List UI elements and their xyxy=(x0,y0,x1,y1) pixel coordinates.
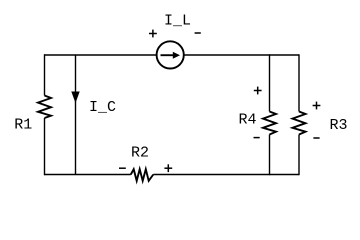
wire left branch top lead to R1 xyxy=(44,54,46,95)
minus sign of R2 xyxy=(119,167,126,169)
wire bottom right segment xyxy=(153,174,299,176)
resistor R4 xyxy=(263,112,276,135)
wire left branch bottom lead from R1 xyxy=(44,118,46,175)
plus sign of R3 xyxy=(313,102,321,110)
resistor R3 xyxy=(293,112,306,135)
plus sign of I_L source xyxy=(149,30,157,38)
svg-text:R1: R1 xyxy=(14,117,32,134)
minus sign of R4 xyxy=(254,137,260,139)
minus sign of R3 xyxy=(313,137,319,139)
current direction arrow I_C xyxy=(71,92,79,104)
resistor R1 xyxy=(38,96,51,119)
svg-text:R4: R4 xyxy=(238,112,256,129)
minus sign of I_L source xyxy=(195,32,201,34)
svg-text:I_C: I_C xyxy=(89,99,116,116)
svg-text:R2: R2 xyxy=(131,145,149,162)
svg-text:R3: R3 xyxy=(329,117,347,134)
wire I_C branch xyxy=(75,55,77,175)
wire R3 branch bottom lead xyxy=(298,135,300,176)
resistor R2 xyxy=(131,169,154,181)
current source arrow xyxy=(161,54,175,56)
plus sign of R2 xyxy=(164,164,172,172)
wire R4 branch top lead xyxy=(269,54,271,111)
plus sign of R4 xyxy=(254,87,262,95)
current source U I_L circle xyxy=(157,41,184,68)
wire bottom left segment xyxy=(44,174,131,176)
wire R4 branch bottom lead xyxy=(269,135,271,176)
wire top (node between R1, I_L source, R4, R3) xyxy=(44,54,299,56)
svg-text:I_L: I_L xyxy=(164,13,191,30)
wire R3 branch top lead xyxy=(298,54,300,111)
